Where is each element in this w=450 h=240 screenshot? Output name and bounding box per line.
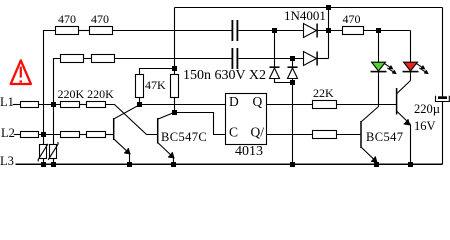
LED D3 arrow 1 head	[389, 66, 393, 69]
transistor T2 emitter arrowhead	[168, 152, 174, 158]
wire top supply rail	[175, 7, 443, 9]
transistor T2 emitter	[158, 143, 173, 158]
resistor R7 470 (top right)	[343, 27, 364, 35]
wire T2 collector node to 4013 C input jog	[175, 113, 226, 135]
wire VDR1 to rail	[43, 159, 45, 165]
wire down to green LED	[378, 31, 380, 63]
wire R5 bottom to node	[139, 98, 141, 105]
node dot rail T3 emitter	[374, 162, 379, 167]
wire Q output to 22K	[267, 104, 313, 106]
svg-text:1N4001: 1N4001	[284, 8, 326, 23]
diode D1 cathode bar	[316, 24, 318, 38]
wire C1 to diode D1 anode	[238, 30, 303, 32]
LED D3 arrow 1	[384, 63, 392, 68]
node dot 47K top	[172, 66, 177, 71]
node dot rail T2 emitter	[171, 162, 176, 167]
wire Q/ output to R13	[267, 134, 313, 136]
capacitor C2 plates	[232, 48, 237, 69]
wire right edge vertical from top rail to capacitor C4	[442, 8, 444, 97]
wire row2 from R4 to capacitor C2	[115, 58, 232, 60]
LED D3 cathode bar	[371, 71, 387, 73]
LED D3 green triangle	[372, 62, 386, 71]
node dot zener anodes	[290, 80, 295, 85]
wire T4 emitter down to rail	[410, 125, 412, 165]
node dot rail VDR1	[41, 162, 46, 167]
transistor T2 base bar	[157, 118, 159, 144]
svg-text:C: C	[229, 125, 238, 140]
transistor T4 emitter	[397, 112, 410, 125]
LED D4 arrow 1	[416, 63, 424, 68]
transistor T3 base bar	[360, 121, 362, 148]
svg-text:L1: L1	[0, 95, 14, 109]
wire L2 node down to varistor VDR1	[43, 135, 45, 145]
zener Z1 triangle	[270, 68, 280, 79]
LED D4 arrow 2 head	[424, 70, 428, 73]
wire T1 emitter to rail	[129, 154, 131, 165]
zener diode Z1 vertical feed from row1 node	[274, 31, 276, 67]
svg-text:D: D	[229, 94, 239, 109]
varistor VDR1 box	[40, 145, 47, 159]
transistor T1 base bar	[113, 118, 115, 140]
resistor R4 470 (row2)	[92, 55, 115, 63]
svg-text:220K 220K: 220K 220K	[58, 87, 115, 101]
wire L1 box to 220K	[39, 104, 61, 106]
resistor R12 22K	[313, 101, 337, 109]
wire lead into resistor R6 top	[174, 69, 176, 75]
svg-text:L2: L2	[1, 126, 15, 140]
wire L1 stub	[13, 104, 21, 106]
wire L1 node down to varistor VDR2	[53, 105, 55, 145]
wire row1 left corner and vertical down to L2 node	[44, 31, 56, 135]
LED D3 arrow 2	[387, 68, 395, 73]
zener Z1 cathode bar	[270, 66, 280, 68]
resistor R13 22K (unlabeled)	[313, 131, 337, 139]
resistor R5 47K	[136, 75, 144, 98]
wire R13 to T3 base	[337, 134, 361, 136]
node dot LED branch	[376, 28, 381, 33]
resistor R8 220K	[61, 102, 80, 108]
node dot rail T4 emitter	[408, 162, 413, 167]
zener Z2 triangle	[288, 68, 298, 79]
wire R11 to T1 base	[106, 134, 114, 136]
svg-text:Q/: Q/	[251, 125, 265, 140]
node dot top rail x=328.5	[326, 5, 331, 10]
diode D1 1N4001 triangle	[304, 24, 317, 38]
wire L2 box to 220K row	[39, 134, 61, 136]
wire Z1 anode jog to Z2 node	[275, 79, 293, 83]
resistor R10 220K (row L2)	[61, 132, 80, 138]
resistor R11 220K (row L2)	[87, 132, 106, 138]
IC U1 4013 box	[226, 94, 267, 145]
transistor T1 collector	[114, 105, 139, 119]
LED D3 cathode wire down to T3 collector	[378, 72, 380, 106]
svg-text:220µ: 220µ	[414, 102, 440, 116]
svg-text:470: 470	[91, 12, 109, 26]
node dot rail T1 emitter	[127, 162, 132, 167]
node dot rail VDR2	[51, 162, 56, 167]
wire R7 to LED branch node	[364, 30, 411, 32]
zener diode Z2 feed from row2 node	[292, 59, 294, 67]
transistor T2 collector	[158, 112, 174, 119]
resistor R3 470 (row2)	[61, 55, 84, 63]
varistor VDR1 diagonal	[38, 144, 48, 162]
wire VDR2 to rail	[53, 159, 55, 165]
capacitor C4 220u top plate	[438, 96, 447, 99]
LED D4 cathode wire down	[410, 72, 412, 80]
transistor T3 emitter	[362, 148, 377, 162]
wire between R10 R11	[80, 134, 87, 136]
wire C4 to bottom rail	[442, 102, 444, 165]
wire T2 emitter to rail	[173, 158, 175, 165]
node dot row1 zener1	[272, 28, 277, 33]
wire C2 to diode D2 anode	[238, 58, 303, 60]
diode D2 cathode bar	[316, 52, 318, 66]
svg-text:Q: Q	[253, 94, 263, 109]
node dot rail zener vertical	[290, 162, 295, 167]
warning triangle symbol	[11, 60, 31, 84]
capacitor C1 plates	[232, 20, 237, 41]
capacitor C4 cup	[436, 96, 450, 102]
fuse box L1 input	[21, 102, 39, 108]
wire D2 cathode up to D1 cathode node	[317, 58, 328, 60]
svg-text:BC547C: BC547C	[161, 130, 207, 144]
varistor VDR2 diagonal	[48, 142, 58, 160]
resistor R9 220K	[87, 102, 106, 108]
LED D4 red triangle	[404, 62, 418, 71]
svg-text:16V: 16V	[414, 119, 436, 133]
wire D1 cathode to R7	[317, 30, 342, 32]
transistor T4 collector to red LED	[397, 81, 411, 94]
node dot D1 cathode	[326, 28, 331, 33]
wire main vertical x=174.5 from top rail down to 47K node	[174, 8, 176, 69]
wire 47K top link	[140, 69, 175, 75]
svg-text:47K: 47K	[145, 78, 166, 92]
resistor R1 470	[56, 27, 79, 35]
node dot 47K bottom T1 collector	[137, 102, 142, 107]
LED D4 cathode bar	[403, 71, 419, 73]
wire Z2 anode down to bottom rail	[292, 79, 294, 165]
varistor VDR2 box	[50, 145, 57, 159]
wire row1 from R2 to capacitor C1	[113, 30, 232, 32]
resistor R2 470	[90, 27, 113, 35]
transistor T3 collector	[362, 107, 379, 122]
wire R9 to diagonal to T2 base	[106, 105, 158, 135]
wire T3 emitter to rail	[376, 162, 378, 165]
wire L2 stub	[14, 134, 21, 136]
svg-text:22K: 22K	[313, 86, 334, 100]
LED D4 arrow 2	[419, 68, 427, 73]
diode D2 1N4001 triangle	[304, 52, 317, 66]
wire between R3 and R4	[84, 58, 92, 60]
fuse box L2 input	[21, 132, 39, 138]
wire between R8 R9	[80, 104, 87, 106]
wire row2 left corner and vertical down to L1 node	[54, 59, 61, 105]
wire node row to 4013 D input	[140, 104, 226, 106]
node dot row2 zener2	[290, 56, 295, 61]
node dot L1 row	[51, 102, 56, 107]
svg-text:4013: 4013	[235, 144, 263, 159]
transistor T4 emitter arrowhead	[404, 119, 410, 125]
transistor T1 emitter	[114, 139, 129, 153]
transistor T3 emitter arrowhead	[371, 156, 377, 162]
node dot T2 collector	[172, 110, 177, 115]
wire vertical x=328.5 joining top rail, D1 and D2 cathodes	[328, 8, 330, 59]
LED D3 arrow 2 head	[392, 70, 396, 73]
LED D4 arrow 1 head	[421, 66, 425, 69]
wire R12 to T4 base	[337, 104, 397, 106]
svg-text:BC547: BC547	[366, 130, 403, 144]
transistor T1 emitter arrowhead	[124, 148, 130, 154]
svg-text:150n 630V X2: 150n 630V X2	[183, 68, 266, 83]
svg-text:L3: L3	[0, 154, 14, 168]
wire lead from R6 bottom to node	[174, 98, 176, 113]
transistor T4 base bar	[396, 88, 398, 115]
resistor R6 (vertical, unlabeled)	[171, 75, 179, 98]
svg-text:470: 470	[343, 12, 361, 26]
wire between R1 and R2	[79, 30, 90, 32]
svg-text:470: 470	[58, 12, 76, 26]
wire corner down to red LED	[410, 31, 412, 63]
node dot L2 row	[41, 132, 46, 137]
wire bottom rail L3	[16, 163, 443, 165]
zener Z2 cathode bar	[288, 66, 298, 68]
